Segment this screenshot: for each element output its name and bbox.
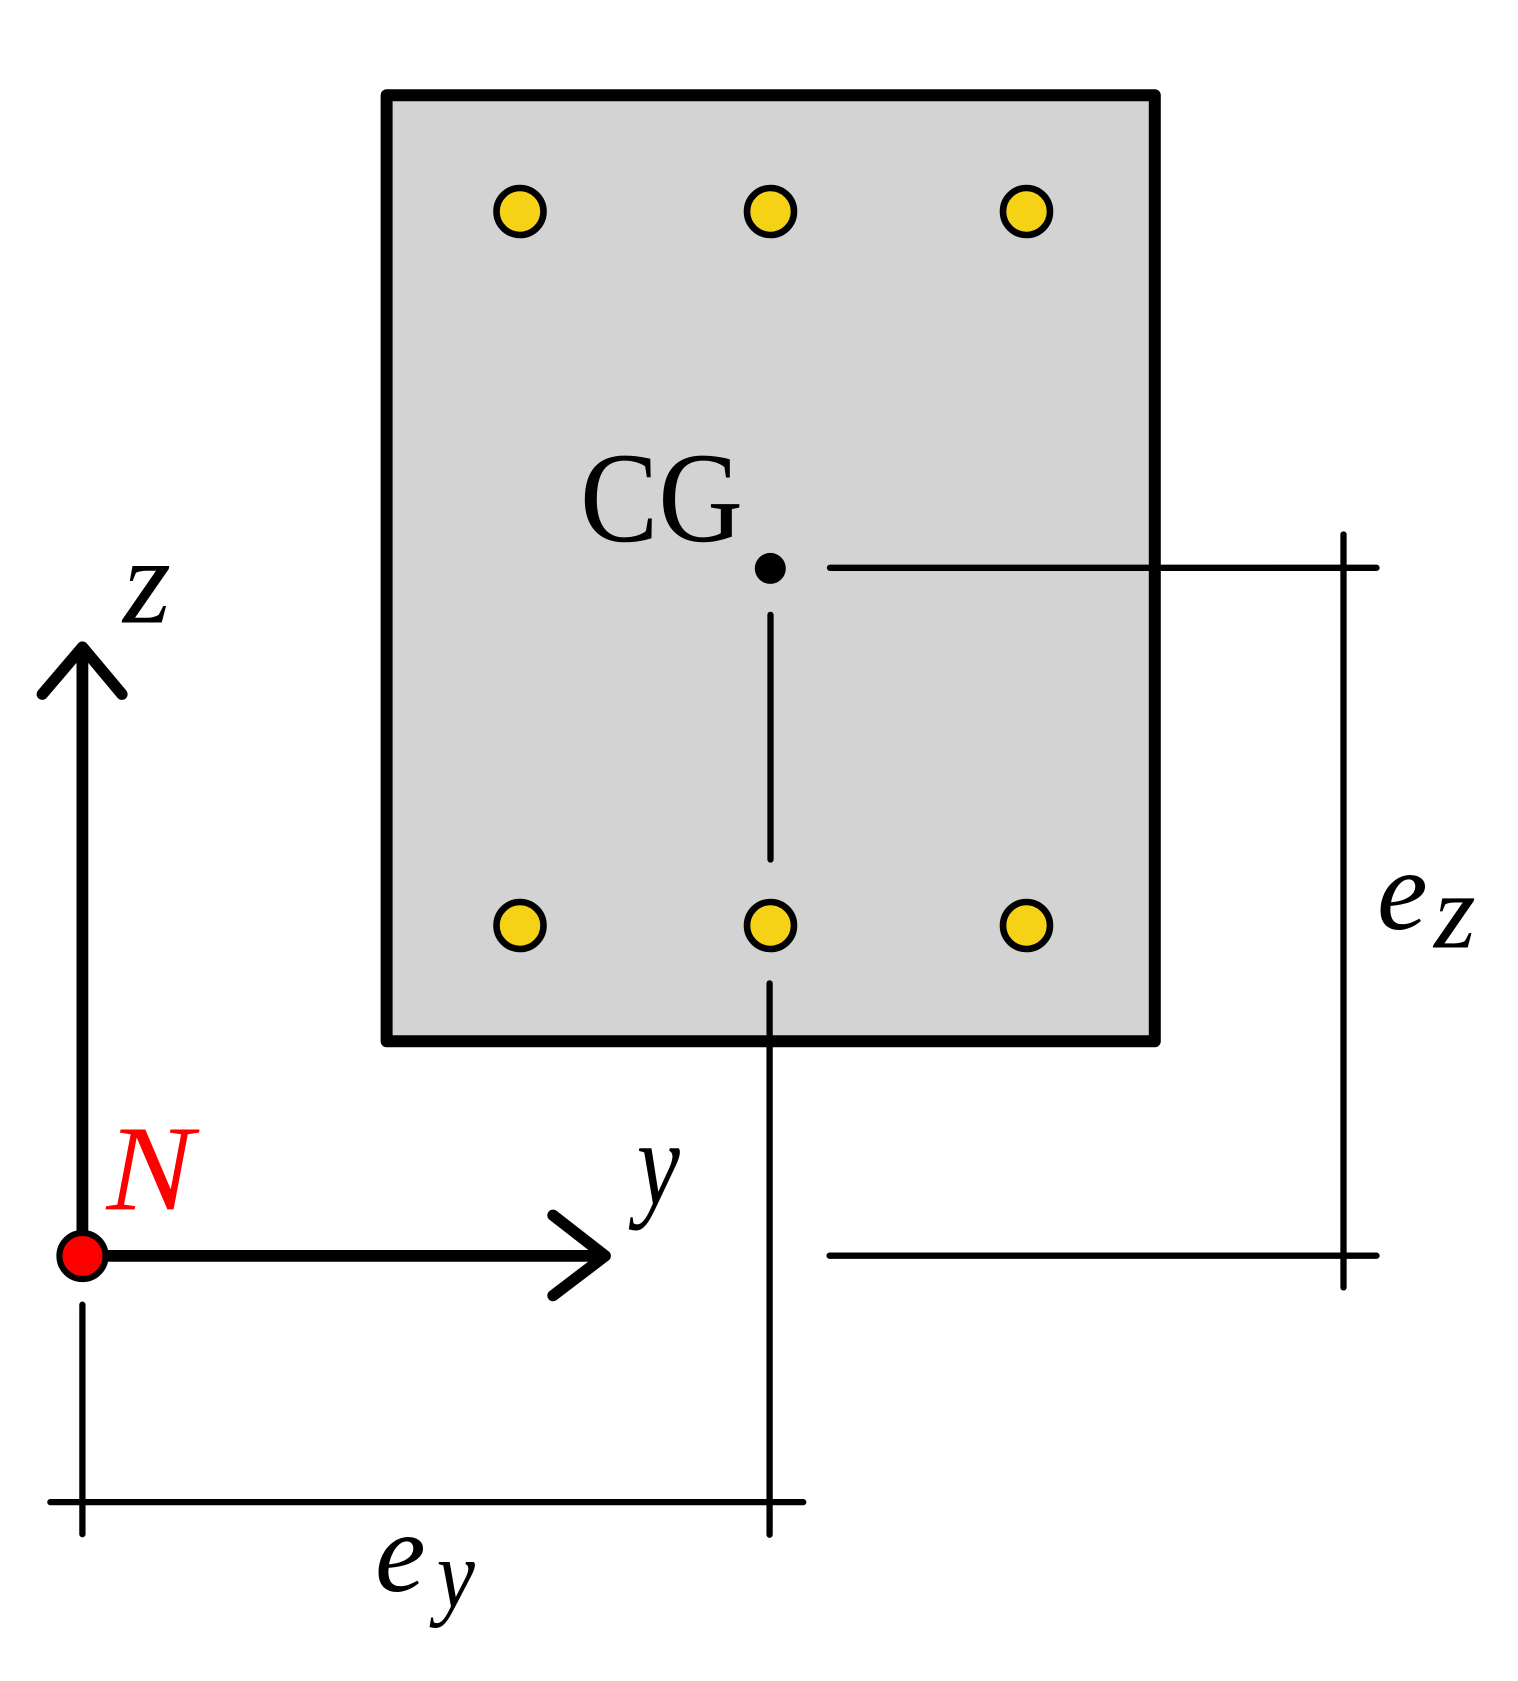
point N (origin) <box>59 1233 105 1279</box>
svg-text:e: e <box>1377 827 1428 954</box>
rebar bottom-right <box>1003 902 1050 949</box>
concrete cross-section <box>387 95 1155 1041</box>
e_z top reference line from CG <box>830 565 1377 571</box>
svg-text:y: y <box>429 1520 475 1628</box>
rebar top-right <box>1003 188 1050 235</box>
CG vertical line upper segment <box>767 615 773 860</box>
CG dot <box>755 553 786 584</box>
rebar bottom-left <box>497 902 544 949</box>
e_z bottom reference line <box>830 1253 1377 1259</box>
svg-text:e: e <box>375 1489 426 1616</box>
svg-text:N: N <box>105 1101 200 1236</box>
CG vertical extension line lower segment <box>766 983 772 1534</box>
z-axis shaft <box>77 655 89 1256</box>
e_z dimension vertical line <box>1340 535 1346 1288</box>
rebar top-left <box>497 188 544 235</box>
svg-text:z: z <box>1432 854 1476 972</box>
svg-text:z: z <box>121 513 171 650</box>
e_y left extension line below origin <box>79 1305 85 1535</box>
y-axis shaft <box>82 1250 597 1262</box>
y-axis arrowhead <box>553 1215 605 1295</box>
e_y dimension horizontal line <box>50 1499 803 1505</box>
rebar bottom-middle <box>747 902 794 949</box>
z-axis arrowhead <box>42 647 122 694</box>
svg-text:CG: CG <box>580 426 743 569</box>
rebar top-middle <box>747 188 794 235</box>
